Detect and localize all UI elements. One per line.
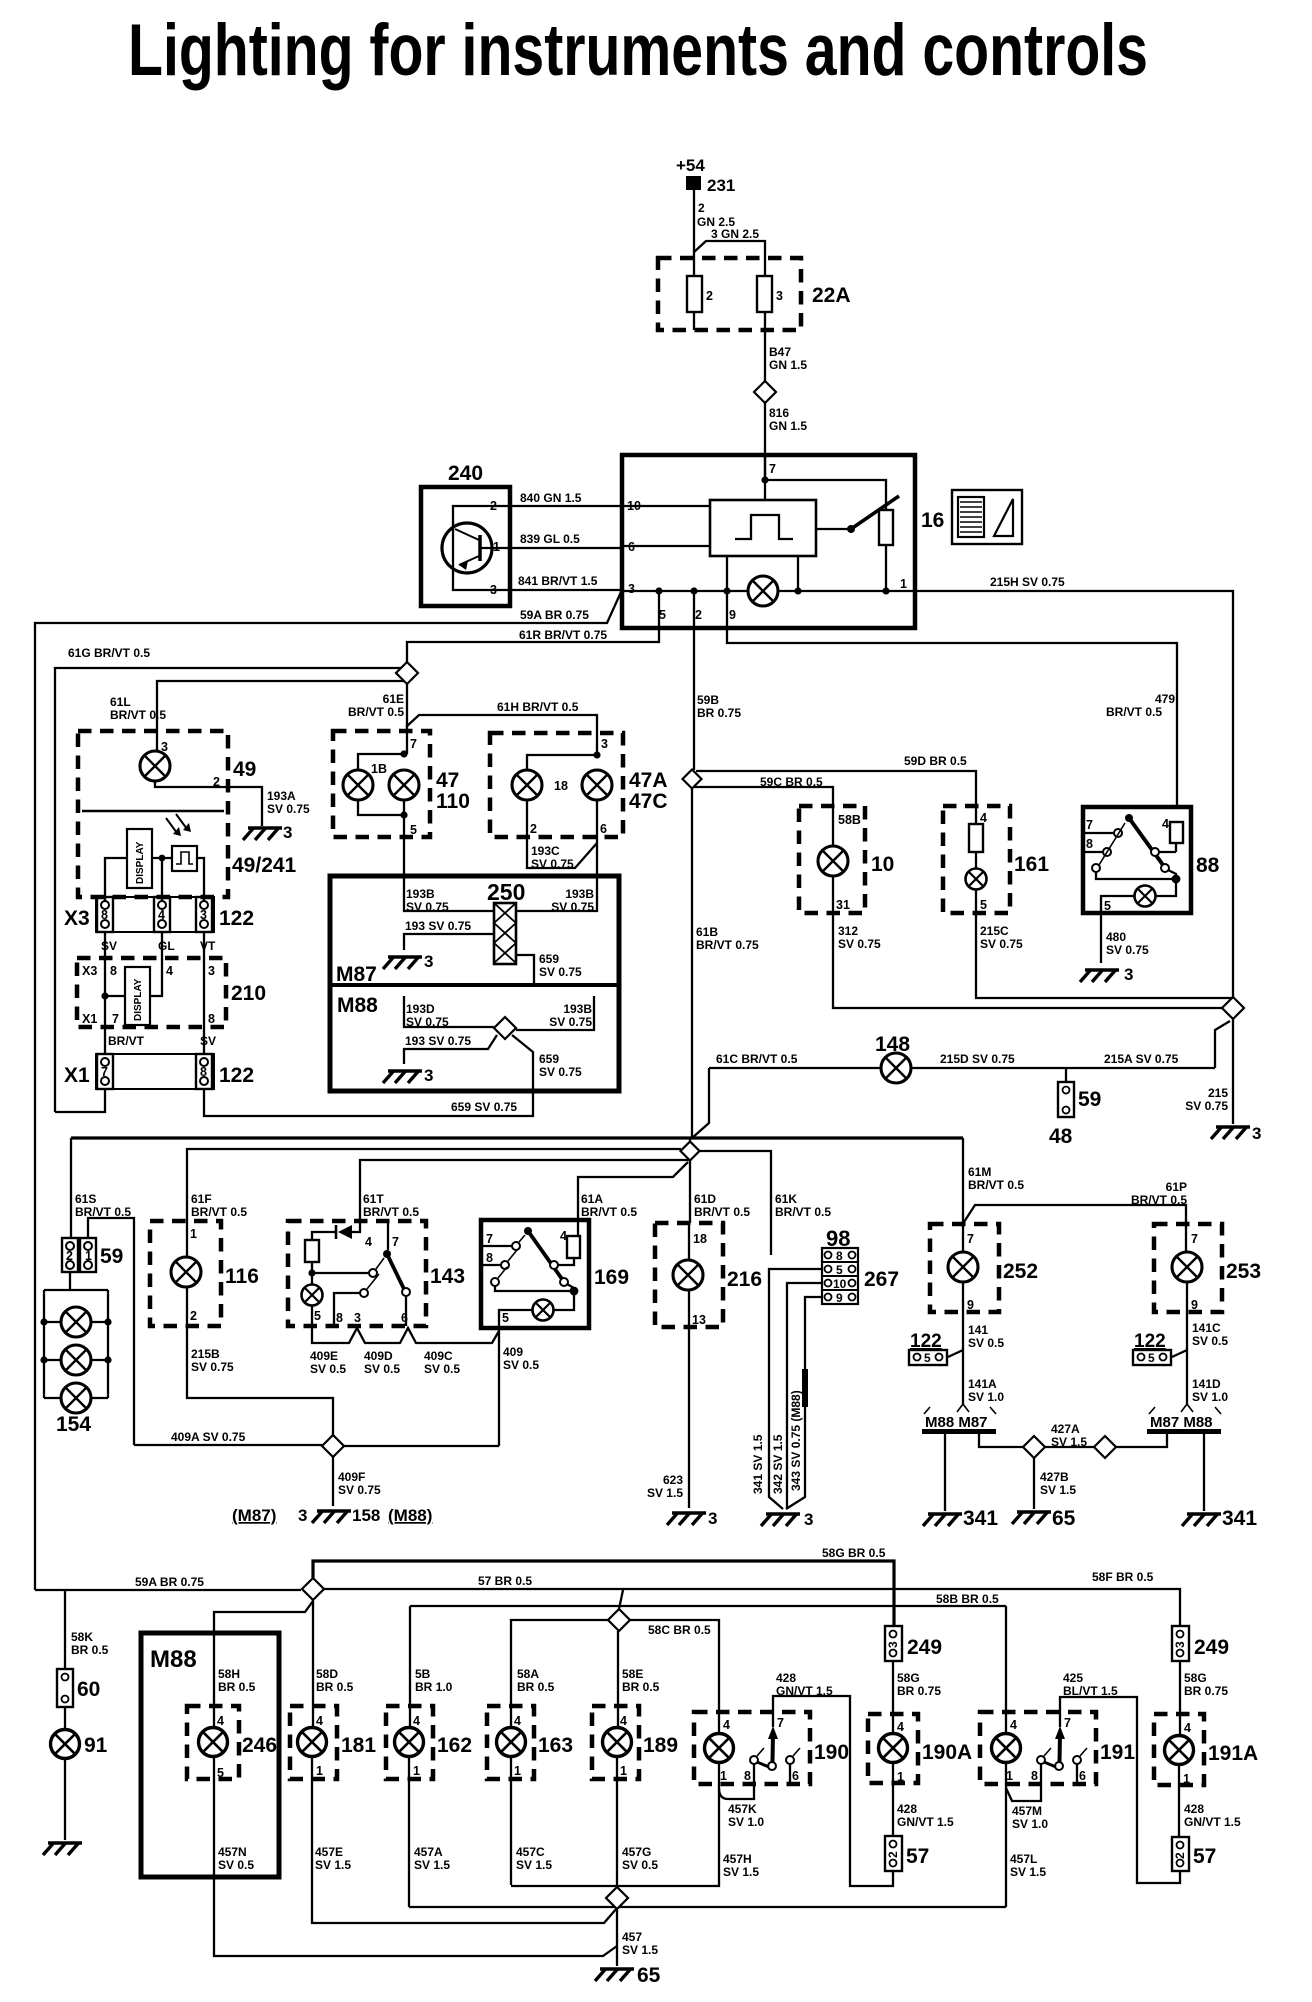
svg-text:GN/VT 1.5: GN/VT 1.5: [1184, 1815, 1241, 1829]
wire 409F SV 0.75 to ground: [333, 1457, 381, 1506]
wire 61B BR/VT 0.75: [692, 789, 759, 1139]
svg-text:SV 1.0: SV 1.0: [968, 1390, 1004, 1404]
svg-text:457E: 457E: [315, 1845, 343, 1859]
svg-text:BR 0.5: BR 0.5: [622, 1680, 660, 1694]
svg-text:SV 0.75: SV 0.75: [980, 937, 1023, 951]
svg-text:428: 428: [776, 1671, 796, 1685]
svg-text:158: 158: [352, 1506, 380, 1525]
wire 215A SV 0.75: [1104, 1021, 1230, 1068]
svg-text:342 SV 1.5: 342 SV 1.5: [771, 1434, 785, 1494]
wire row5 / 341 SV 1.5: [751, 1269, 822, 1509]
svg-text:M87 M88: M87 M88: [1150, 1414, 1213, 1431]
svg-text:457C: 457C: [516, 1845, 545, 1859]
wire to ground 341 (right): [1203, 1434, 1205, 1511]
svg-text:16: 16: [921, 509, 944, 532]
svg-text:4: 4: [723, 1718, 730, 1732]
svg-text:190A: 190A: [922, 1741, 972, 1764]
svg-text:457N: 457N: [218, 1845, 247, 1859]
svg-text:193B: 193B: [565, 887, 594, 901]
svg-text:7: 7: [486, 1232, 493, 1246]
lamp in 252: [948, 1252, 978, 1282]
svg-text:13: 13: [692, 1313, 706, 1327]
return rail 457 and node diamond: [409, 1885, 1006, 1907]
wire 457H SV 1.5: [511, 1788, 759, 1886]
node diamond 61 distribution: [681, 1142, 700, 1161]
wire 61G BR/VT 0.5 (left margin): [55, 646, 401, 1112]
svg-text:215C: 215C: [980, 924, 1009, 938]
symbol legend box: [952, 490, 1022, 544]
svg-text:58B: 58B: [838, 813, 861, 827]
svg-text:7: 7: [967, 1232, 974, 1246]
wire to ground 341 (left): [944, 1434, 946, 1511]
svg-text:840 GN 1.5: 840 GN 1.5: [520, 491, 582, 505]
wire 428 GN/VT 1.5 (switch 190 feed): [773, 1671, 893, 1886]
connector 122 (right): [1133, 1331, 1171, 1365]
ground 3 (480): [1080, 965, 1133, 984]
wire 58G BR 0.5 bus: [313, 1546, 894, 1626]
connector diamond on B47/816: [754, 381, 776, 403]
wire 59C BR 0.5: [694, 775, 833, 806]
wire 61R BR/VT 0.75: [407, 591, 659, 663]
labels BR/VT SV: [108, 1034, 216, 1048]
lamps in 47A: [512, 751, 612, 876]
svg-text:7: 7: [410, 737, 417, 751]
svg-text:31: 31: [836, 898, 850, 912]
svg-text:59C BR 0.5: 59C BR 0.5: [760, 775, 823, 789]
svg-text:SV 0.5: SV 0.5: [310, 1362, 346, 1376]
pin 6 wire in 16: [622, 545, 710, 547]
wire 659 SV 0.75 (M88): [512, 1035, 582, 1091]
svg-text:22A: 22A: [812, 284, 851, 307]
pin 10 wire in 16: [622, 505, 710, 507]
svg-text:57: 57: [906, 1845, 929, 1868]
svg-text:4: 4: [514, 1714, 521, 1728]
svg-text:65: 65: [1052, 1507, 1076, 1530]
svg-text:61A: 61A: [581, 1192, 603, 1206]
svg-text:GL: GL: [158, 939, 175, 953]
svg-text:58E: 58E: [622, 1667, 643, 1681]
svg-text:SV: SV: [101, 939, 117, 953]
svg-text:7: 7: [1191, 1232, 1198, 1246]
wire 59A BR 0.75 bottom run: [35, 1575, 301, 1590]
control unit 210: [77, 958, 266, 1027]
svg-text:5: 5: [502, 1311, 509, 1325]
svg-text:SV 0.5: SV 0.5: [364, 1362, 400, 1376]
wire X1 pin7 to 61G margin: [55, 1089, 105, 1112]
fuse 3: [757, 276, 783, 312]
svg-text:409F: 409F: [338, 1470, 365, 1484]
wires in 210: [101, 958, 204, 1054]
svg-text:61E: 61E: [383, 692, 404, 706]
svg-text:9: 9: [729, 608, 736, 622]
wire 457C SV 1.5: [511, 1779, 552, 1885]
svg-text:61T: 61T: [363, 1192, 384, 1206]
connector 98 / 267: [822, 1226, 899, 1305]
svg-text:BR/VT 0.5: BR/VT 0.5: [110, 708, 166, 722]
wire 312 SV 0.75: [833, 913, 1222, 1008]
svg-text:61H BR/VT 0.5: 61H BR/VT 0.5: [497, 700, 579, 714]
wire 425 BL/VT 1.5 (switch 191 feed): [1060, 1671, 1180, 1883]
svg-text:457M: 457M: [1012, 1804, 1042, 1818]
connector 57 (left): [885, 1836, 929, 1871]
svg-text:60: 60: [77, 1678, 100, 1701]
connector unit M87/M88 box: [330, 876, 619, 1091]
lamp in 190: [705, 1734, 734, 1763]
svg-text:B47: B47: [769, 345, 791, 359]
lamp unit 190A: [868, 1714, 972, 1836]
svg-text:49: 49: [233, 758, 256, 781]
instrument cluster 49 / 49-241 dashed box: [78, 731, 297, 897]
lamps in 47: [343, 750, 419, 876]
svg-text:SV 1.5: SV 1.5: [516, 1858, 552, 1872]
svg-text:8: 8: [200, 1065, 207, 1079]
wire 5B / 58B BR 0.5: [410, 1592, 1006, 1606]
lamp unit 162: [386, 1706, 472, 1779]
svg-text:7: 7: [112, 1012, 119, 1026]
svg-text:VT: VT: [200, 939, 216, 953]
svg-text:479: 479: [1155, 692, 1175, 706]
svg-text:841 BR/VT 1.5: 841 BR/VT 1.5: [518, 574, 598, 588]
pin 7 wire and junction in 16: [761, 455, 886, 510]
wire 427A SV 1.5: [979, 1422, 1087, 1449]
svg-text:GN 1.5: GN 1.5: [769, 358, 807, 372]
svg-text:428: 428: [1184, 1802, 1204, 1816]
svg-text:2: 2: [490, 499, 497, 513]
svg-text:246: 246: [242, 1734, 277, 1757]
svg-text:2: 2: [1173, 1852, 1187, 1859]
svg-text:4: 4: [620, 1714, 627, 1728]
svg-text:341: 341: [963, 1507, 998, 1530]
svg-text:215B: 215B: [191, 1347, 220, 1361]
svg-text:5: 5: [924, 1351, 931, 1365]
wire 457E SV 1.5: [312, 1779, 617, 1923]
svg-text:58F BR 0.5: 58F BR 0.5: [1092, 1570, 1154, 1584]
lamp 91: [65, 1707, 108, 1757]
svg-text:249: 249: [1194, 1636, 1229, 1659]
svg-text:2: 2: [886, 1851, 900, 1858]
connector 57 (right): [1172, 1837, 1216, 1871]
panel lamps 47 / 110: [333, 731, 470, 837]
wire 457N SV 0.5: [214, 1779, 617, 1956]
svg-text:SV 0.5: SV 0.5: [424, 1362, 460, 1376]
junction node in 49/241: [105, 855, 204, 901]
clock lamp 216: [655, 1223, 762, 1327]
svg-text:SV 0.75: SV 0.75: [551, 900, 594, 914]
wire 59B BR 0.75: [694, 591, 741, 770]
svg-text:M87: M87: [336, 963, 377, 986]
svg-text:427A: 427A: [1051, 1422, 1080, 1436]
lamps in 154: [61, 1307, 91, 1337]
switch in 191: [1037, 1726, 1087, 1784]
svg-text:116: 116: [225, 1265, 259, 1288]
wire row10 / 342 SV 1.5: [771, 1283, 822, 1509]
svg-text:8: 8: [208, 1012, 215, 1026]
svg-text:1: 1: [316, 1764, 323, 1778]
svg-text:61G BR/VT 0.5: 61G BR/VT 0.5: [68, 646, 150, 660]
svg-text:SV 1.0: SV 1.0: [728, 1815, 764, 1829]
bus wire 61S/61M: [71, 1136, 963, 1139]
wire 841 BR/VT 1.5: [510, 574, 622, 590]
svg-text:4: 4: [158, 908, 165, 922]
svg-text:427B: 427B: [1040, 1470, 1069, 1484]
svg-text:61K: 61K: [775, 1192, 797, 1206]
svg-text:141C: 141C: [1192, 1321, 1221, 1335]
ground 65 (457): [595, 1964, 661, 1987]
wire 409A SV 0.75: [134, 1430, 322, 1445]
wire 61K BR/VT 0.5: [699, 1151, 831, 1255]
svg-text:49/241: 49/241: [232, 854, 297, 877]
svg-text:4: 4: [1010, 1718, 1017, 1732]
svg-text:267: 267: [864, 1268, 899, 1291]
svg-text:623: 623: [663, 1473, 683, 1487]
svg-text:58K: 58K: [71, 1630, 93, 1644]
svg-text:3: 3: [601, 737, 608, 751]
svg-text:58D: 58D: [316, 1667, 338, 1681]
svg-text:58H: 58H: [218, 1667, 240, 1681]
wire 61F BR/VT 0.5: [187, 1149, 681, 1221]
svg-text:BR/VT 0.5: BR/VT 0.5: [1131, 1193, 1187, 1207]
svg-text:457L: 457L: [1010, 1852, 1037, 1866]
connector 59 (2-pin): [62, 1238, 123, 1272]
svg-text:409: 409: [503, 1345, 523, 1359]
svg-text:7: 7: [101, 1065, 108, 1079]
wire 2 GN 2.5 from 231 to fuse 2: [694, 190, 735, 276]
hazard switch 169: [481, 1220, 629, 1328]
svg-text:91: 91: [84, 1734, 108, 1757]
diode in 143: [312, 1221, 360, 1240]
wire 428 GN/VT 1.5 (191A to 57): [1184, 1802, 1241, 1829]
wire 428 GN/VT 1.5 (190A to 57): [897, 1802, 954, 1829]
svg-text:58B BR 0.5: 58B BR 0.5: [936, 1592, 999, 1606]
svg-text:BR/VT 0.5: BR/VT 0.5: [775, 1205, 831, 1219]
svg-text:BR 0.75: BR 0.75: [1184, 1684, 1228, 1698]
svg-text:X1: X1: [82, 1012, 97, 1026]
wire 193D SV 0.75 (M88): [404, 996, 494, 1029]
wire 5B BR 1.0: [410, 1606, 453, 1727]
svg-text:193 SV 0.75: 193 SV 0.75: [405, 1034, 471, 1048]
node diamond 427 (left): [1023, 1436, 1045, 1458]
svg-text:4: 4: [1162, 817, 1169, 831]
svg-text:10: 10: [871, 853, 894, 876]
svg-text:BR/VT 0.75: BR/VT 0.75: [696, 938, 759, 952]
svg-text:BR 0.5: BR 0.5: [316, 1680, 354, 1694]
display unit in 49/241: [127, 829, 152, 888]
svg-text:SV 1.5: SV 1.5: [723, 1865, 759, 1879]
svg-text:2: 2: [698, 201, 705, 215]
panel lamps 47A / 47C: [490, 733, 668, 837]
wire 58G BR 0.75 (left): [893, 1661, 941, 1734]
svg-text:409A SV 0.75: 409A SV 0.75: [171, 1430, 246, 1444]
svg-text:BR/VT 0.5: BR/VT 0.5: [348, 705, 404, 719]
ground 65 (427B): [1012, 1507, 1076, 1530]
svg-text:59: 59: [1078, 1088, 1101, 1111]
svg-text:BR 0.5: BR 0.5: [218, 1680, 256, 1694]
svg-text:3: 3: [298, 1506, 307, 1525]
cigarette lighter lamp 161: [943, 806, 1049, 913]
ground 3 (M87): [383, 952, 433, 971]
svg-text:61D: 61D: [694, 1192, 716, 1206]
svg-text:GN/VT 1.5: GN/VT 1.5: [776, 1684, 833, 1698]
svg-text:9: 9: [967, 1298, 974, 1312]
svg-text:88: 88: [1196, 854, 1220, 877]
svg-text:58G BR 0.5: 58G BR 0.5: [822, 1546, 886, 1560]
svg-text:SV 1.5: SV 1.5: [1040, 1483, 1076, 1497]
lamp unit 191A: [1154, 1714, 1258, 1837]
svg-text:4: 4: [1184, 1721, 1191, 1735]
svg-text:143: 143: [430, 1265, 465, 1288]
svg-text:252: 252: [1003, 1260, 1038, 1283]
wire 59A BR 0.75 (left margin): [35, 592, 621, 1590]
fusebox 22A: [658, 258, 851, 330]
svg-text:5: 5: [980, 898, 987, 912]
svg-text:169: 169: [594, 1266, 629, 1289]
svg-text:341 SV 1.5: 341 SV 1.5: [751, 1434, 765, 1494]
svg-text:1: 1: [897, 1770, 904, 1784]
resistor in 16: [879, 510, 893, 545]
svg-text:2: 2: [695, 608, 702, 622]
svg-text:BR/VT 0.5: BR/VT 0.5: [191, 1205, 247, 1219]
wire 840 GN 1.5: [510, 491, 622, 506]
svg-text:341: 341: [1222, 1507, 1257, 1530]
svg-text:189: 189: [643, 1734, 678, 1757]
lamp in 88: [1135, 886, 1156, 907]
svg-text:SV 0.75: SV 0.75: [406, 900, 449, 914]
relay unit 16: [622, 455, 944, 628]
svg-text:110: 110: [436, 790, 470, 813]
wire 215B SV 0.75: [187, 1326, 333, 1435]
connector 250 (hatched): [487, 879, 525, 964]
ground 341 (right): [1182, 1507, 1257, 1530]
wire 409 SV 0.5: [499, 1328, 539, 1446]
svg-text:1: 1: [1183, 1772, 1190, 1786]
lamp unit 181: [290, 1706, 376, 1779]
svg-text:3: 3: [776, 289, 783, 303]
ground (91): [43, 1843, 82, 1856]
wire 58E BR 0.5: [618, 1631, 660, 1727]
svg-text:SV 0.5: SV 0.5: [622, 1858, 658, 1872]
wire B47 GN 1.5: [765, 312, 807, 382]
svg-text:4: 4: [897, 1720, 904, 1734]
wire row9 / 343 SV 0.75 (M88): [786, 1297, 822, 1509]
svg-text:215H SV 0.75: 215H SV 0.75: [990, 575, 1065, 589]
svg-text:659 SV 0.75: 659 SV 0.75: [451, 1100, 517, 1114]
wire 215C SV 0.75: [976, 913, 1233, 998]
svg-text:816: 816: [769, 406, 789, 420]
light arrows in 49/241: [166, 814, 191, 836]
wire 61C / 215D with lamp 148: [709, 1033, 1215, 1068]
svg-text:6: 6: [1079, 1769, 1086, 1783]
svg-text:1: 1: [620, 1764, 627, 1778]
svg-text:SV 1.0: SV 1.0: [1012, 1817, 1048, 1831]
svg-text:312: 312: [838, 924, 858, 938]
svg-text:343 SV 0.75 (M88): 343 SV 0.75 (M88): [789, 1390, 803, 1491]
node diamond 59B/59C/59D: [683, 770, 702, 789]
switch in 190: [750, 1726, 800, 1784]
svg-text:SV 0.75: SV 0.75: [338, 1483, 381, 1497]
svg-text:193B: 193B: [406, 887, 435, 901]
connector 122 (left): [909, 1331, 947, 1365]
svg-text:457A: 457A: [414, 1845, 443, 1859]
svg-text:M88 M87: M88 M87: [925, 1414, 988, 1431]
svg-text:193D: 193D: [406, 1002, 435, 1016]
svg-text:SV 1.5: SV 1.5: [647, 1486, 683, 1500]
svg-text:216: 216: [727, 1268, 762, 1291]
svg-text:59A BR 0.75: 59A BR 0.75: [135, 1575, 204, 1589]
svg-text:GN/VT 1.5: GN/VT 1.5: [897, 1815, 954, 1829]
switch internals 143: [308, 1221, 410, 1326]
svg-text:M88: M88: [150, 1646, 197, 1673]
wires 409E 409D 409C below 143: [310, 1326, 499, 1376]
lamp in 161: [966, 869, 987, 890]
svg-text:6: 6: [792, 1769, 799, 1783]
svg-text:215D SV 0.75: 215D SV 0.75: [940, 1052, 1015, 1066]
wire 457K SV 1.0 (jumper): [719, 1784, 764, 1829]
wire 193B SV 0.75 (M87 left): [404, 876, 494, 914]
svg-text:61M: 61M: [968, 1165, 991, 1179]
svg-text:250: 250: [487, 879, 525, 905]
svg-text:57 BR 0.5: 57 BR 0.5: [478, 1574, 532, 1588]
svg-text:141A: 141A: [968, 1377, 997, 1391]
switch in 16: [816, 496, 899, 533]
wire 58H BR 0.5: [214, 1601, 313, 1727]
svg-text:9: 9: [836, 1291, 843, 1305]
svg-text:5: 5: [1104, 899, 1111, 913]
svg-text:61B: 61B: [696, 925, 718, 939]
svg-text:5: 5: [314, 1309, 321, 1323]
rheostat 240: [421, 462, 510, 606]
svg-text:191A: 191A: [1208, 1742, 1258, 1765]
svg-text:65: 65: [637, 1964, 661, 1987]
node diamond 215 wires: [1222, 997, 1244, 1019]
node diamond 61R/61G/61L/61E: [396, 662, 418, 684]
svg-text:154: 154: [56, 1413, 91, 1436]
wire 480 SV 0.75 to ground: [1101, 913, 1149, 963]
svg-text:BR/VT 0.5: BR/VT 0.5: [1106, 705, 1162, 719]
svg-text:M88: M88: [337, 994, 378, 1017]
ground 3 (M88): [383, 1066, 433, 1085]
lamp in 116: [171, 1257, 201, 1287]
wire 141 SV 0.5: [948, 1312, 1004, 1404]
svg-text:SV 0.5: SV 0.5: [503, 1358, 539, 1372]
switch internals 88: [1083, 814, 1183, 913]
svg-text:61P: 61P: [1166, 1180, 1187, 1194]
wire 659 SV 0.75 (M87): [516, 952, 582, 983]
pulse generator box in 16: [710, 500, 816, 556]
svg-text:SV 1.5: SV 1.5: [414, 1858, 450, 1872]
switch internals 169: [481, 1220, 580, 1328]
lamp cluster 154: [40, 1272, 111, 1436]
node diamond (M88): [494, 1017, 516, 1039]
wire 457G SV 0.5: [617, 1779, 658, 1887]
svg-text:8: 8: [486, 1251, 493, 1265]
svg-text:(M88): (M88): [388, 1506, 432, 1525]
svg-text:190: 190: [814, 1741, 849, 1764]
wire 61A BR/VT 0.5: [578, 1162, 688, 1220]
svg-text:SV 0.75: SV 0.75: [539, 1065, 582, 1079]
svg-text:3 GN 2.5: 3 GN 2.5: [711, 227, 759, 241]
resistor in 143: [305, 1240, 319, 1262]
svg-text:61S: 61S: [75, 1192, 96, 1206]
wire 215 SV 0.75 to ground: [1185, 1019, 1233, 1124]
lamp unit 246: [187, 1706, 277, 1780]
svg-text:3: 3: [283, 823, 292, 842]
wire 193 SV 0.75 (M88) to ground: [404, 1034, 497, 1064]
svg-text:8: 8: [744, 1769, 751, 1783]
svg-text:59B: 59B: [697, 693, 719, 707]
svg-text:3: 3: [628, 582, 635, 596]
wire 457M SV 1.0 (jumper): [1006, 1784, 1048, 1831]
wire 61T BR/VT 0.5: [360, 1160, 690, 1221]
